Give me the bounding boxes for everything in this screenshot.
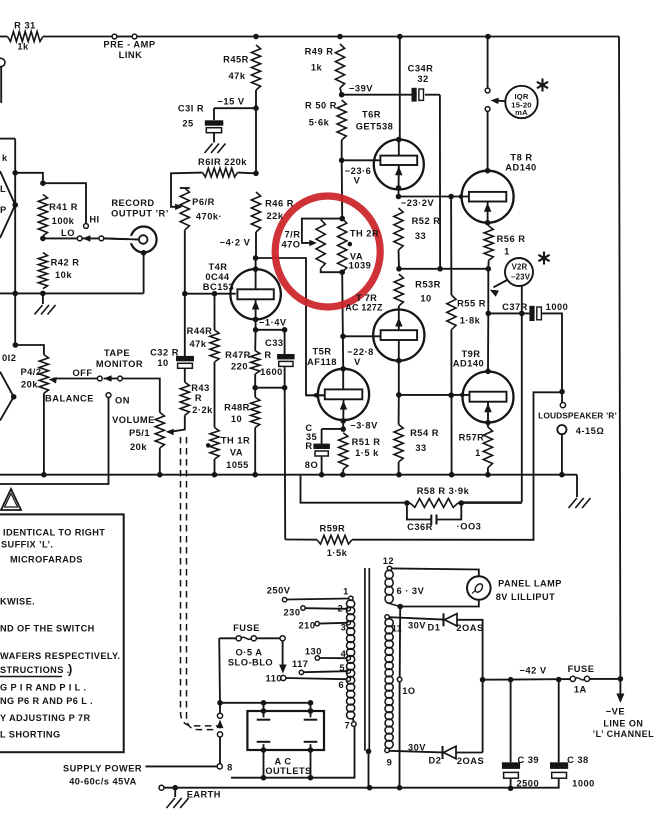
svg-text:1k: 1k [311,63,323,73]
svg-text:C33: C33 [265,338,284,348]
svg-text:2OAS: 2OAS [456,623,483,633]
svg-text:R43: R43 [191,383,210,393]
svg-text:MICROFARADS: MICROFARADS [10,555,83,565]
svg-text:R57R: R57R [459,433,485,443]
svg-text:R53R: R53R [415,280,441,290]
svg-text:1: 1 [475,448,481,458]
svg-text:R47R: R47R [225,350,251,360]
svg-text:470k·: 470k· [196,212,222,222]
svg-text:2: 2 [338,604,344,614]
svg-text:TH 2R: TH 2R [350,229,379,239]
svg-text:220: 220 [231,362,248,372]
svg-text:C34R: C34R [408,64,434,74]
svg-text:VA: VA [230,448,243,458]
svg-text:AD140: AD140 [453,359,484,369]
svg-text:8V LILLIPUT: 8V LILLIPUT [496,592,556,602]
svg-text:LINK: LINK [119,50,143,60]
svg-text:0I2: 0I2 [2,353,16,363]
svg-text:10: 10 [231,414,242,424]
svg-text:8: 8 [227,763,233,773]
svg-text:AD140: AD140 [505,163,536,173]
svg-text:’L’ CHANNEL: ’L’ CHANNEL [593,729,655,739]
svg-text:1k: 1k [17,42,29,52]
svg-text:100k: 100k [52,216,75,226]
svg-text:R: R [195,393,202,403]
svg-text:R46 R: R46 R [265,199,294,209]
svg-text:−23·6: −23·6 [345,166,372,176]
svg-text:R: R [264,350,271,360]
svg-text:R52 R: R52 R [412,216,441,226]
svg-text:AF118: AF118 [307,357,337,367]
svg-text:SLO-BLO: SLO-BLO [228,658,273,668]
svg-text:P: P [0,205,7,215]
svg-text:25: 25 [182,119,193,129]
svg-text:8O: 8O [305,460,318,470]
svg-text:AC 127Z: AC 127Z [345,303,383,313]
svg-text:GET538: GET538 [356,122,394,132]
svg-text:LO: LO [61,228,75,238]
svg-text:R44R: R44R [187,326,213,336]
svg-text:1039: 1039 [349,261,372,271]
svg-text:OFF: OFF [72,368,92,378]
svg-text:47k: 47k [189,339,206,349]
svg-text:P6/R: P6/R [192,197,215,207]
svg-text:33: 33 [415,443,426,453]
svg-text:210: 210 [298,621,315,631]
svg-text:10: 10 [157,358,168,368]
svg-text:6: 6 [338,680,344,690]
svg-text:1600: 1600 [260,367,283,377]
svg-text:4: 4 [341,649,347,659]
svg-text:Y ADJUSTING P 7R: Y ADJUSTING P 7R [0,713,90,723]
svg-text:−22·8: −22·8 [347,347,374,357]
svg-text:1·5k: 1·5k [327,548,348,558]
svg-text:V2R: V2R [512,263,528,272]
svg-text:R 50 R: R 50 R [305,101,337,111]
svg-text:C 39: C 39 [517,755,539,765]
svg-text:IDENTICAL TO RIGHT: IDENTICAL TO RIGHT [3,528,105,538]
svg-text:OUTLETS: OUTLETS [265,766,311,776]
svg-text:C37R: C37R [502,302,528,312]
svg-text:2·2k: 2·2k [192,405,213,415]
svg-text:R45R: R45R [223,55,249,65]
svg-text:T9R: T9R [461,349,480,359]
svg-text:6 · 3V: 6 · 3V [396,586,424,596]
svg-text:D1: D1 [428,623,441,633]
svg-text:R 31: R 31 [14,21,36,31]
svg-text:47k: 47k [228,71,245,81]
svg-text:T6R: T6R [362,110,381,120]
svg-text:40-60c/s 45VA: 40-60c/s 45VA [69,777,137,787]
svg-text:MONITOR: MONITOR [96,359,143,369]
svg-text:V: V [354,176,361,186]
svg-text:NG P6 R AND P6 L .: NG P6 R AND P6 L . [0,696,93,706]
svg-text:R41 R: R41 R [49,202,78,212]
svg-text:TH 1R: TH 1R [221,436,250,446]
svg-text:R59R: R59R [320,524,346,534]
svg-text:−23·2V: −23·2V [401,198,435,208]
svg-text:TAPE: TAPE [104,348,130,358]
svg-text:1·8k: 1·8k [460,316,481,326]
svg-text:LINE ON: LINE ON [603,719,643,729]
svg-text:−15 V: −15 V [217,97,244,107]
svg-text:FUSE: FUSE [568,664,595,674]
svg-text:20k: 20k [130,442,147,452]
svg-text:VOLUME: VOLUME [112,415,155,425]
svg-text:1A: 1A [574,685,587,695]
svg-text:5·6k: 5·6k [309,118,330,128]
svg-text:C36R: C36R [407,522,433,532]
svg-text:117: 117 [292,659,309,669]
svg-text:−3·8V: −3·8V [350,421,378,431]
svg-text:47O: 47O [281,239,300,249]
svg-text:−1·4V: −1·4V [259,318,287,328]
svg-text:O·5 A: O·5 A [236,648,263,658]
svg-text:9: 9 [387,758,393,768]
svg-text:1: 1 [504,247,510,257]
svg-text:A C: A C [275,757,292,767]
svg-text:mA: mA [515,108,528,117]
svg-text:22k: 22k [266,211,283,221]
svg-text:): ) [68,662,73,677]
svg-text:−23V: −23V [511,273,531,282]
svg-text:L: L [0,184,6,194]
svg-text:V: V [354,357,361,367]
svg-text:G P I R AND P I L .: G P I R AND P I L . [0,683,86,693]
svg-text:PRE - AMP: PRE - AMP [103,40,155,50]
svg-text:1: 1 [343,587,349,597]
svg-text:SUPPLY POWER: SUPPLY POWER [63,764,142,774]
svg-text:C3I R: C3I R [178,104,204,114]
svg-text:BALANCE: BALANCE [45,394,94,404]
svg-text:L SHORTING: L SHORTING [0,730,61,740]
svg-text:12: 12 [383,556,394,566]
svg-text:5: 5 [339,663,345,673]
svg-text:T 7R: T 7R [356,293,377,303]
svg-text:R: R [305,441,312,451]
svg-text:R6IR 220k: R6IR 220k [198,157,247,167]
svg-text:2500: 2500 [516,779,539,789]
svg-text:ON: ON [115,396,130,406]
svg-text:R58 R 3·9k: R58 R 3·9k [417,486,470,496]
svg-text:−4·2 V: −4·2 V [220,238,251,248]
svg-text:1000: 1000 [572,779,595,789]
svg-text:32: 32 [417,74,428,84]
svg-text:−VE: −VE [606,707,625,717]
svg-text:C32 R: C32 R [150,348,179,358]
svg-text:3: 3 [341,623,347,633]
svg-text:P4/2: P4/2 [20,367,41,377]
svg-text:R54 R: R54 R [410,428,439,438]
svg-text:R49 R: R49 R [305,47,334,57]
svg-text:1055: 1055 [226,460,249,470]
svg-text:1·5 k: 1·5 k [355,448,379,458]
svg-text:1O: 1O [402,686,415,696]
svg-text:RECORD: RECORD [111,198,154,208]
svg-text:SUFFIX ’L’.: SUFFIX ’L’. [1,540,53,550]
svg-text:30V: 30V [408,743,426,753]
svg-text:T8 R: T8 R [510,153,532,163]
svg-text:30V: 30V [408,621,426,631]
svg-text:−39V: −39V [349,84,373,94]
svg-text:1000: 1000 [546,302,569,312]
svg-text:4-15Ω: 4-15Ω [576,426,605,436]
svg-text:T5R: T5R [312,347,331,357]
svg-text:OUTPUT ’R’: OUTPUT ’R’ [111,209,169,219]
svg-text:7/R: 7/R [285,229,301,239]
svg-text:230: 230 [283,607,300,617]
svg-text:WAFERS RESPECTIVELY.: WAFERS RESPECTIVELY. [0,651,121,661]
svg-text:FUSE: FUSE [233,623,260,633]
svg-text:R56 R: R56 R [497,234,526,244]
svg-text:BC153: BC153 [203,282,234,292]
svg-text:20k: 20k [21,380,38,390]
svg-text:R42 R: R42 R [51,258,80,268]
svg-text:STRUCTIONS .: STRUCTIONS . [0,665,70,675]
svg-text:R51 R: R51 R [352,437,381,447]
svg-text:T4R: T4R [208,262,227,272]
svg-text:ND OF THE SWITCH: ND OF THE SWITCH [0,624,95,634]
svg-text:k: k [2,153,8,163]
svg-text:0C44: 0C44 [205,272,230,282]
svg-text:C 38: C 38 [567,755,589,765]
svg-text:130: 130 [305,647,322,657]
svg-text:2OAS: 2OAS [457,756,484,766]
svg-text:KWISE.: KWISE. [0,597,35,607]
svg-text:10: 10 [420,294,431,304]
svg-text:110: 110 [266,674,283,684]
svg-text:LOUDSPEAKER ’R’: LOUDSPEAKER ’R’ [538,411,617,421]
svg-text:11: 11 [392,624,402,634]
svg-text:HI: HI [89,215,99,225]
svg-text:P5/1: P5/1 [129,428,150,438]
svg-text:D2: D2 [429,756,442,766]
svg-text:R55 R: R55 R [457,299,486,309]
svg-text:−42 V: −42 V [519,666,546,676]
svg-text:250V: 250V [267,586,291,596]
svg-text:10k: 10k [55,270,72,280]
svg-text:R48R: R48R [224,403,250,413]
svg-text:7: 7 [344,721,350,731]
svg-text:PANEL LAMP: PANEL LAMP [498,579,562,589]
svg-text:EARTH: EARTH [187,790,221,800]
svg-text:·OO3: ·OO3 [457,522,482,532]
svg-text:33: 33 [415,231,426,241]
